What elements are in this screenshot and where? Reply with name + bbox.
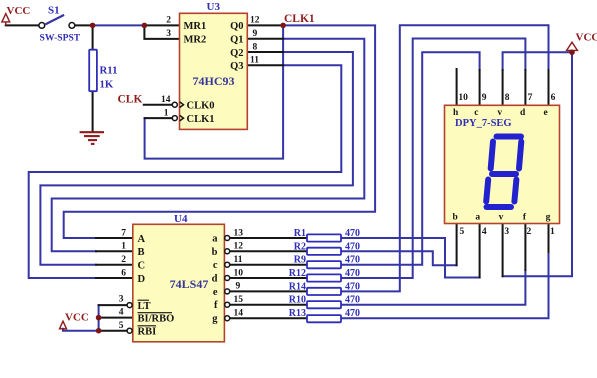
svg-text:1: 1 <box>550 227 555 237</box>
svg-text:74LS47: 74LS47 <box>170 277 209 291</box>
svg-text:Q2: Q2 <box>230 48 243 59</box>
svg-text:470: 470 <box>345 308 360 319</box>
svg-text:8: 8 <box>253 42 258 52</box>
svg-text:b: b <box>212 247 218 258</box>
svg-text:6: 6 <box>551 93 556 103</box>
svg-text:6: 6 <box>121 268 126 278</box>
svg-text:h: h <box>453 108 459 118</box>
svg-text:14: 14 <box>161 95 171 105</box>
svg-text:2: 2 <box>166 16 171 26</box>
svg-text:1: 1 <box>164 108 169 118</box>
svg-text:DPY_7-SEG: DPY_7-SEG <box>455 118 512 129</box>
svg-text:c: c <box>213 260 218 271</box>
svg-text:f: f <box>214 300 218 311</box>
svg-text:470: 470 <box>345 268 360 279</box>
svg-text:S1: S1 <box>48 5 60 17</box>
svg-text:VCC: VCC <box>7 5 31 17</box>
svg-text:2: 2 <box>121 255 126 265</box>
svg-text:LT: LT <box>138 301 151 312</box>
svg-text:2: 2 <box>527 227 532 237</box>
svg-text:12: 12 <box>234 242 244 252</box>
svg-text:g: g <box>546 213 551 223</box>
svg-text:CLK: CLK <box>118 93 143 105</box>
svg-text:12: 12 <box>250 16 260 26</box>
svg-text:Q1: Q1 <box>230 35 243 46</box>
svg-text:470: 470 <box>345 255 360 266</box>
svg-text:Q3: Q3 <box>230 61 243 72</box>
svg-text:4: 4 <box>119 307 124 317</box>
svg-text:11: 11 <box>234 255 243 265</box>
svg-text:15: 15 <box>234 295 244 305</box>
svg-text:9: 9 <box>482 93 487 103</box>
svg-text:10: 10 <box>458 93 468 103</box>
svg-text:8: 8 <box>505 93 510 103</box>
svg-text:9: 9 <box>236 282 241 292</box>
svg-text:R2: R2 <box>294 241 306 252</box>
svg-text:R14: R14 <box>289 281 306 292</box>
svg-text:3: 3 <box>119 295 124 305</box>
svg-text:470: 470 <box>345 228 360 239</box>
svg-text:13: 13 <box>234 228 244 238</box>
svg-text:d: d <box>212 274 218 285</box>
svg-text:3: 3 <box>166 29 171 39</box>
svg-text:7: 7 <box>121 228 126 238</box>
svg-text:10: 10 <box>234 268 244 278</box>
svg-text:U3: U3 <box>207 1 221 13</box>
svg-text:e: e <box>543 108 547 118</box>
svg-text:R13: R13 <box>289 308 306 319</box>
svg-text:R1: R1 <box>294 228 306 239</box>
svg-text:MR2: MR2 <box>184 35 207 46</box>
svg-text:CLK1: CLK1 <box>284 13 315 25</box>
svg-text:VCC: VCC <box>576 32 597 44</box>
svg-text:14: 14 <box>234 309 244 319</box>
svg-text:C: C <box>138 261 146 272</box>
svg-text:a: a <box>475 213 480 223</box>
svg-text:b: b <box>453 213 458 223</box>
svg-text:CLK1: CLK1 <box>187 114 215 125</box>
svg-text:11: 11 <box>250 56 259 66</box>
svg-text:5: 5 <box>119 321 124 331</box>
svg-text:Q0: Q0 <box>230 21 243 32</box>
svg-text:v: v <box>499 213 504 223</box>
svg-text:470: 470 <box>345 281 360 292</box>
svg-text:g: g <box>212 314 218 325</box>
svg-text:1: 1 <box>121 242 126 252</box>
svg-text:VCC: VCC <box>65 311 89 323</box>
svg-text:7: 7 <box>528 93 533 103</box>
svg-text:CLK0: CLK0 <box>187 101 215 112</box>
svg-text:MR1: MR1 <box>184 21 207 32</box>
svg-text:B: B <box>138 247 145 258</box>
svg-text:3: 3 <box>504 227 509 237</box>
svg-text:BI/RBO: BI/RBO <box>138 313 175 324</box>
svg-text:1K: 1K <box>100 79 114 91</box>
svg-text:U4: U4 <box>174 213 188 225</box>
svg-text:v: v <box>497 108 502 118</box>
svg-text:d: d <box>520 108 526 118</box>
svg-text:D: D <box>138 274 146 285</box>
svg-text:R12: R12 <box>289 268 306 279</box>
svg-text:470: 470 <box>345 295 360 306</box>
svg-text:a: a <box>212 234 218 245</box>
svg-text:A: A <box>138 234 146 245</box>
svg-text:5: 5 <box>460 227 465 237</box>
svg-text:9: 9 <box>253 29 258 39</box>
svg-text:RBI: RBI <box>138 327 157 338</box>
svg-text:4: 4 <box>482 227 487 237</box>
svg-text:470: 470 <box>345 241 360 252</box>
svg-text:c: c <box>474 108 478 118</box>
svg-text:R10: R10 <box>289 295 306 306</box>
svg-text:R11: R11 <box>100 65 118 77</box>
svg-text:74HC93: 74HC93 <box>193 74 235 88</box>
svg-text:e: e <box>213 287 218 298</box>
svg-text:SW-SPST: SW-SPST <box>40 33 81 44</box>
svg-text:R9: R9 <box>294 255 306 266</box>
